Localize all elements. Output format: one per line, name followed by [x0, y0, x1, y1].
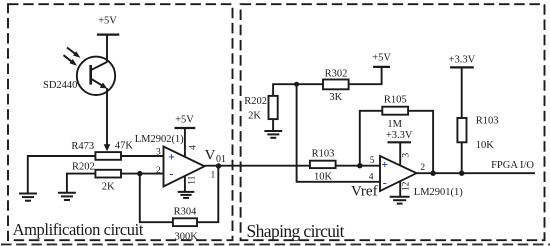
svg-text:R302: R302 — [325, 69, 348, 80]
svg-text:3: 3 — [401, 153, 411, 158]
phototransistor collector line — [91, 62, 107, 70]
svg-text:R202: R202 — [72, 161, 95, 172]
power +5V label (divider supply) — [372, 52, 391, 67]
svg-text:SD2440: SD2440 — [43, 80, 77, 91]
power +3.3V label (comparator supply) — [386, 130, 413, 142]
op-amp U1 LM2902(1) triangle — [135, 134, 205, 187]
svg-text:+5V: +5V — [372, 52, 391, 63]
wire op-amp output to shaping circuit — [205, 165, 310, 167]
wire +5V to op-amp pin 4 — [184, 128, 186, 157]
svg-text:10K: 10K — [476, 140, 495, 151]
svg-text:R202: R202 — [244, 96, 267, 107]
node junction at pin 2 — [137, 171, 142, 176]
svg-text:3: 3 — [156, 147, 161, 157]
svg-text:-: - — [169, 167, 173, 181]
svg-text:R103: R103 — [312, 149, 335, 160]
svg-text:V: V — [205, 148, 216, 164]
ground (comparator) — [390, 197, 410, 204]
light arrow 2 — [64, 55, 78, 65]
power +5V label (op-amp supply) — [175, 115, 196, 128]
svg-text:2K: 2K — [102, 182, 115, 193]
svg-text:10K: 10K — [314, 171, 333, 182]
svg-text:2K: 2K — [248, 111, 261, 122]
ground (R473) — [19, 194, 37, 201]
node junction pin 5 — [357, 163, 362, 168]
wire +3.3V down to R103 — [461, 67, 463, 118]
comparator U2 LM2901(1) triangle — [380, 156, 463, 198]
wire R202 right to op-amp pin 2 — [121, 173, 164, 175]
svg-text:300K: 300K — [175, 232, 199, 243]
wire op-amp pin 11 to ground — [184, 175, 186, 192]
node junction Vref — [294, 82, 299, 87]
svg-text:+5V: +5V — [175, 115, 194, 126]
power +5V label (phototransistor supply) — [97, 16, 119, 35]
svg-text:Vref: Vref — [351, 184, 378, 200]
svg-text:Amplification circuit: Amplification circuit — [13, 220, 144, 239]
resistor R304 300K feedback — [173, 207, 198, 243]
wire junction down to feedback R304 — [140, 174, 173, 223]
resistor R473 47K — [71, 140, 133, 159]
wire R473 right to op-amp pin 3 — [121, 155, 164, 157]
svg-text:4: 4 — [189, 145, 199, 150]
svg-text:3K: 3K — [329, 92, 342, 103]
resistor R103 10K (comparator input) — [310, 149, 336, 183]
wire R202 left to ground — [67, 174, 96, 193]
light arrow 1 — [67, 48, 81, 58]
phototransistor emitter line with arrow — [91, 79, 108, 89]
dashed line: bottom partial border of next figure row — [1, 243, 550, 245]
svg-text:-: - — [383, 175, 387, 189]
resistor R302 3K (Vref divider high side) — [323, 69, 349, 104]
ground (R202 divider) — [264, 131, 282, 138]
node junction R105 feedback — [430, 171, 435, 176]
svg-text:LM2902(1): LM2902(1) — [135, 134, 184, 145]
svg-text:2: 2 — [156, 166, 161, 176]
wire R304 right up to output node — [197, 166, 218, 222]
svg-text:Shaping circuit: Shaping circuit — [247, 221, 345, 241]
svg-text:+3.3V: +3.3V — [449, 55, 476, 66]
svg-text:2: 2 — [420, 163, 425, 173]
wire Vref node down to comparator pin 4 — [297, 84, 380, 182]
svg-text:11: 11 — [187, 175, 197, 184]
wire R473 left to ground — [28, 156, 96, 194]
svg-text:47K: 47K — [115, 140, 133, 151]
dashed box: shaping circuit border — [241, 4, 545, 240]
svg-text:R304: R304 — [174, 207, 198, 218]
svg-text:1: 1 — [211, 171, 216, 181]
ground (op-amp) — [178, 192, 195, 198]
dashed box: amplification circuit border — [8, 4, 233, 240]
svg-text:+: + — [381, 157, 388, 171]
svg-text:R103: R103 — [476, 116, 499, 127]
svg-text:+3.3V: +3.3V — [386, 130, 413, 141]
svg-text:4: 4 — [369, 173, 374, 183]
power +3.3V label (pull-up supply) — [449, 55, 476, 68]
svg-text:FPGA I/O: FPGA I/O — [491, 160, 534, 171]
wire R202 top to Vref node — [273, 84, 297, 96]
svg-text:+5V: +5V — [98, 16, 117, 27]
wire junction up to R105 — [360, 111, 383, 166]
svg-text:1M: 1M — [387, 119, 402, 130]
svg-text:5: 5 — [370, 156, 375, 166]
wire emitter down to R473 with current arrow — [104, 88, 111, 151]
wire R103 to comparator pin 5 — [336, 165, 380, 167]
wire R105 right down to comparator output — [408, 111, 433, 173]
wire +3.3V to comparator pin 3 — [399, 142, 401, 166]
resistor R202 2K (amplifier input) — [72, 161, 121, 192]
phototransistor base bar — [89, 65, 92, 85]
resistor R202 2K (Vref divider low side) — [244, 96, 277, 122]
node V01 output label — [205, 148, 226, 166]
wire +5V to phototransistor collector — [106, 35, 108, 63]
resistor R105 1M hysteresis — [382, 94, 408, 129]
wire Vref node to R302 — [297, 83, 323, 85]
svg-text:R473: R473 — [71, 141, 94, 152]
wire R103 down to output node — [461, 142, 463, 173]
ground (R202) — [58, 193, 76, 200]
node junction R103 pullup — [459, 171, 464, 176]
wire comparator pin 12 to ground — [399, 181, 401, 197]
svg-text:R105: R105 — [384, 94, 407, 105]
resistor R103 10K pull-up — [457, 116, 498, 151]
node junction at output — [216, 163, 221, 168]
svg-text:LM2901(1): LM2901(1) — [414, 187, 463, 198]
wire comparator output to FPGA — [417, 172, 536, 174]
wire R202 bottom to ground — [272, 119, 274, 131]
svg-text:12: 12 — [402, 181, 412, 191]
svg-text:+: + — [168, 149, 175, 163]
wire R302 right up to +5V — [349, 67, 382, 84]
phototransistor Q1 SD2440 circle — [77, 57, 115, 95]
